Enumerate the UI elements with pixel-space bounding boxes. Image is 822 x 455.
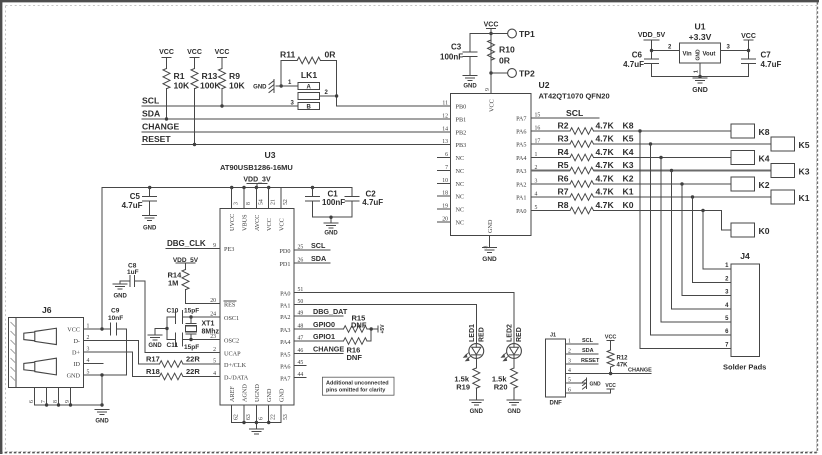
net label SCL at U2 PA7 bbox=[531, 108, 599, 118]
J6 shield pin 9 bbox=[65, 388, 71, 406]
svg-text:C7: C7 bbox=[761, 51, 772, 60]
svg-text:14: 14 bbox=[442, 127, 448, 133]
svg-text:GND: GND bbox=[67, 373, 81, 380]
U3 pin 3 UVCC bbox=[229, 188, 240, 232]
resistor R4 4.7K bbox=[531, 147, 614, 161]
wire OSC2 / U3 pin 23 bbox=[183, 334, 240, 345]
svg-text:12: 12 bbox=[442, 114, 448, 120]
svg-text:26: 26 bbox=[298, 258, 304, 264]
U3 pin 6 UGND bbox=[254, 384, 265, 423]
U2 pin 11 PB0 bbox=[442, 101, 466, 111]
key pad K2 bbox=[731, 177, 770, 191]
wire RES / U3 pin 20 bbox=[186, 298, 237, 309]
svg-text:PA7: PA7 bbox=[516, 116, 526, 123]
wire U1 ground rail bbox=[652, 63, 749, 78]
wire SCL bus left segment bbox=[142, 104, 298, 107]
net label RESET at J1 bbox=[566, 358, 600, 364]
svg-text:J4: J4 bbox=[740, 251, 750, 261]
wire J6 VCC bbox=[84, 327, 111, 330]
svg-text:+5V: +5V bbox=[380, 324, 386, 334]
wire J1 pin6 to VCC bbox=[566, 383, 617, 393]
svg-text:SCL: SCL bbox=[142, 96, 159, 106]
svg-text:LED2: LED2 bbox=[507, 324, 514, 342]
U2 pin 6 NC stub bbox=[438, 152, 465, 162]
svg-text:2: 2 bbox=[213, 347, 216, 353]
svg-text:CHANGE: CHANGE bbox=[628, 368, 652, 374]
ground below C1 C2 bbox=[324, 223, 338, 237]
svg-text:22R: 22R bbox=[186, 355, 200, 364]
svg-text:R10: R10 bbox=[499, 45, 515, 55]
svg-text:NC: NC bbox=[456, 155, 465, 162]
svg-text:DBG_CLK: DBG_CLK bbox=[167, 239, 206, 248]
svg-text:VDD_5V: VDD_5V bbox=[638, 32, 666, 39]
key pad K1 bbox=[771, 190, 810, 204]
svg-text:4.7K: 4.7K bbox=[596, 200, 615, 210]
svg-text:PA6: PA6 bbox=[280, 364, 290, 371]
U3 pin 5 D+CLK bbox=[213, 359, 246, 370]
svg-text:VBUS: VBUS bbox=[242, 214, 249, 231]
ground flag at LK1 bbox=[253, 80, 281, 93]
svg-text:K1: K1 bbox=[623, 187, 634, 197]
capacitor C7 4.7uF bbox=[742, 51, 782, 77]
USB plug symbol upper bbox=[24, 328, 57, 344]
svg-text:4.7K: 4.7K bbox=[596, 121, 615, 131]
resistor R9 10K bbox=[219, 69, 246, 107]
svg-text:PA2: PA2 bbox=[280, 314, 290, 321]
svg-text:GND: GND bbox=[482, 256, 497, 263]
svg-text:UCAP: UCAP bbox=[224, 351, 241, 358]
svg-text:9: 9 bbox=[213, 243, 216, 249]
svg-text:VCC: VCC bbox=[266, 218, 273, 231]
U3 pin 22 GND bbox=[266, 388, 277, 422]
resistor R3 4.7K bbox=[531, 134, 614, 148]
svg-text:53: 53 bbox=[283, 414, 289, 420]
svg-text:PD1: PD1 bbox=[279, 261, 290, 268]
svg-text:R4: R4 bbox=[558, 147, 569, 157]
svg-text:OSC2: OSC2 bbox=[224, 338, 239, 345]
svg-text:GND: GND bbox=[507, 409, 521, 415]
U3 pin 8 VBUS bbox=[242, 188, 253, 232]
svg-text:VCC: VCC bbox=[215, 49, 230, 56]
svg-text:R6: R6 bbox=[558, 174, 569, 184]
svg-text:VCC: VCC bbox=[605, 335, 617, 341]
svg-text:pins omitted for clarity: pins omitted for clarity bbox=[326, 388, 386, 394]
svg-text:VCC: VCC bbox=[187, 49, 202, 56]
svg-text:AT42QT1070 QFN20: AT42QT1070 QFN20 bbox=[539, 92, 610, 101]
svg-text:R17: R17 bbox=[146, 355, 160, 364]
net flag VDD_5V at R14 bbox=[173, 257, 199, 270]
wire U1 pin 2 input bbox=[652, 45, 680, 51]
svg-text:UGND: UGND bbox=[254, 384, 261, 402]
net label K3 bbox=[623, 160, 634, 170]
svg-text:D+: D+ bbox=[72, 350, 80, 357]
svg-text:UVCC: UVCC bbox=[229, 214, 236, 231]
svg-text:NC: NC bbox=[456, 207, 465, 214]
svg-text:20: 20 bbox=[442, 217, 448, 223]
net label SDA bbox=[142, 109, 160, 119]
svg-text:VCC: VCC bbox=[159, 49, 174, 56]
resistor R12 47K bbox=[607, 350, 628, 374]
svg-text:44: 44 bbox=[298, 372, 304, 378]
net label SDA at J1 bbox=[566, 348, 599, 354]
svg-text:48: 48 bbox=[298, 324, 304, 330]
U2 pin 5 PA0 bbox=[516, 205, 537, 215]
svg-text:4.7K: 4.7K bbox=[596, 147, 615, 157]
svg-text:K3: K3 bbox=[623, 160, 634, 170]
svg-text:PA3: PA3 bbox=[516, 168, 526, 175]
U3 pin 45 PA6 stub bbox=[280, 360, 306, 371]
svg-text:5: 5 bbox=[213, 359, 216, 365]
J6 shield pin 7 bbox=[41, 388, 47, 406]
svg-text:C5: C5 bbox=[130, 192, 141, 201]
net label RESET bbox=[142, 134, 171, 144]
resistor R8 4.7K bbox=[531, 200, 614, 214]
svg-text:3: 3 bbox=[234, 202, 240, 205]
J4 pin 1 bbox=[725, 263, 729, 269]
capacitor C3 100nF bbox=[440, 34, 491, 76]
wire CHANGE bus bbox=[142, 131, 451, 133]
U2 pin 14 PB2 bbox=[442, 127, 466, 137]
svg-text:R5: R5 bbox=[558, 160, 569, 170]
resistor R6 4.7K bbox=[531, 174, 614, 188]
svg-text:VCC: VCC bbox=[484, 22, 499, 29]
J4 pin 5 bbox=[725, 316, 729, 322]
svg-text:SCL: SCL bbox=[582, 338, 594, 344]
svg-text:PA3: PA3 bbox=[280, 327, 290, 334]
svg-text:46: 46 bbox=[298, 348, 304, 354]
svg-text:D-/DATA: D-/DATA bbox=[224, 375, 249, 382]
net label DBG_CLK / U3 pin 9 PE3 bbox=[166, 239, 234, 253]
svg-text:GPIO1: GPIO1 bbox=[313, 332, 335, 341]
svg-text:GND: GND bbox=[148, 343, 162, 349]
J1 pin 1 bbox=[568, 339, 571, 345]
resistor R19 1.5k bbox=[454, 358, 479, 399]
wire K4 row bbox=[594, 156, 732, 159]
svg-text:K0: K0 bbox=[759, 226, 770, 236]
wire U3 PA1 pin 50 to LED1 bbox=[280, 299, 476, 344]
svg-text:NC: NC bbox=[456, 220, 465, 227]
capacitor C6 4.7uF bbox=[623, 51, 658, 77]
U2 pin 13 PB3 bbox=[442, 139, 466, 149]
wire key net to J4 bbox=[640, 131, 731, 349]
resistor R11 0R bbox=[280, 50, 337, 64]
J1 pin 2 bbox=[568, 349, 571, 355]
svg-text:PA4: PA4 bbox=[516, 155, 526, 162]
svg-text:R3: R3 bbox=[558, 134, 569, 144]
resistor R5 4.7K bbox=[531, 160, 614, 174]
resistor R10 0R bbox=[488, 40, 515, 66]
svg-text:9: 9 bbox=[65, 400, 71, 403]
resistor R16 DNF bbox=[344, 338, 372, 362]
svg-text:7: 7 bbox=[445, 165, 448, 171]
svg-text:Vin: Vin bbox=[683, 52, 693, 58]
U2 pin 20 NC stub bbox=[438, 217, 465, 227]
svg-text:PA2: PA2 bbox=[516, 182, 526, 189]
U2 pin 10 NC stub bbox=[438, 178, 465, 188]
svg-text:PA0: PA0 bbox=[280, 291, 290, 298]
svg-text:PD0: PD0 bbox=[279, 248, 290, 255]
J1 pin 4 bbox=[568, 368, 571, 374]
wire C9 to ground net bbox=[126, 329, 128, 375]
svg-text:Solder Pads: Solder Pads bbox=[723, 363, 766, 372]
svg-text:NC: NC bbox=[456, 181, 465, 188]
ground at C8 bbox=[113, 284, 127, 300]
svg-text:R8: R8 bbox=[558, 200, 569, 210]
svg-text:52: 52 bbox=[283, 199, 289, 205]
svg-text:K2: K2 bbox=[623, 174, 634, 184]
power symbol VCC bbox=[159, 49, 174, 69]
connector J4 Solder Pads bbox=[723, 251, 766, 372]
svg-text:23: 23 bbox=[210, 334, 216, 340]
svg-text:D+/CLK: D+/CLK bbox=[224, 362, 247, 369]
svg-text:4.7uF: 4.7uF bbox=[761, 60, 782, 69]
svg-text:K4: K4 bbox=[623, 147, 634, 157]
svg-text:7: 7 bbox=[41, 400, 47, 403]
ground flag at J1 pin5 bbox=[566, 378, 602, 389]
svg-text:GND: GND bbox=[114, 294, 128, 300]
svg-text:22R: 22R bbox=[186, 367, 200, 376]
svg-text:SCL: SCL bbox=[311, 241, 326, 250]
wire J6 GND bbox=[84, 373, 127, 406]
net label SCL bbox=[142, 96, 159, 106]
key pad K4 bbox=[731, 151, 770, 165]
resistor R1 10K bbox=[163, 69, 190, 120]
resistor R18 22R bbox=[133, 367, 221, 380]
net label SCL at J1 bbox=[566, 338, 599, 344]
svg-text:0R: 0R bbox=[325, 50, 337, 60]
crystal XT1 8MHz bbox=[186, 317, 220, 340]
svg-text:DNF: DNF bbox=[347, 353, 363, 362]
svg-text:22: 22 bbox=[271, 414, 277, 420]
svg-text:TP1: TP1 bbox=[519, 29, 535, 39]
net label SCL / U3 pin 25 PD0 bbox=[279, 241, 330, 255]
net label GPIO1 / U3 pin 47 PA4 bbox=[280, 332, 343, 346]
svg-text:RED: RED bbox=[479, 327, 486, 342]
resistor R13 100K bbox=[191, 69, 221, 145]
svg-text:K1: K1 bbox=[799, 193, 810, 203]
U3 pin 4 D-DATA bbox=[213, 371, 249, 382]
svg-text:XT1: XT1 bbox=[202, 321, 215, 328]
capacitor C2 4.7uF bbox=[345, 188, 383, 218]
capacitor C8 1uF bbox=[120, 263, 145, 287]
U3 pin 54 AVCC bbox=[254, 188, 265, 232]
svg-text:R13: R13 bbox=[202, 71, 218, 81]
svg-text:47K: 47K bbox=[617, 363, 629, 369]
svg-text:GND: GND bbox=[692, 87, 708, 94]
wire key net to J4 bbox=[693, 197, 732, 282]
U3 pin 53 GND bbox=[279, 388, 290, 422]
svg-text:45: 45 bbox=[298, 360, 304, 366]
svg-text:100nF: 100nF bbox=[322, 198, 345, 207]
resistor R7 4.7K bbox=[531, 187, 614, 201]
power symbol VCC above U2 bbox=[484, 22, 499, 29]
wire R15 R16 junction to flag bbox=[370, 324, 387, 341]
svg-text:10: 10 bbox=[442, 178, 448, 184]
svg-text:K4: K4 bbox=[759, 154, 770, 164]
resistor R17 22R bbox=[139, 355, 221, 368]
U3 pin 44 PA7 stub bbox=[280, 372, 306, 383]
U3 pin 62 AREF bbox=[229, 386, 240, 423]
svg-text:63: 63 bbox=[246, 414, 252, 420]
svg-text:24: 24 bbox=[210, 312, 216, 318]
svg-text:GND: GND bbox=[324, 231, 338, 237]
svg-text:15pF: 15pF bbox=[184, 308, 199, 315]
net label K1 bbox=[623, 187, 634, 197]
J4 pin 2 bbox=[725, 276, 729, 282]
svg-text:GND: GND bbox=[279, 388, 286, 402]
capacitor C11 15pF bbox=[167, 333, 200, 351]
jumper LK1 bbox=[281, 70, 336, 110]
svg-text:10K: 10K bbox=[174, 81, 191, 91]
svg-text:ID: ID bbox=[73, 361, 80, 368]
note box bbox=[322, 377, 394, 395]
svg-text:RES: RES bbox=[224, 302, 236, 309]
LED LED1 RED bbox=[464, 324, 486, 361]
test point TP2 bbox=[491, 69, 535, 79]
svg-text:PA5: PA5 bbox=[280, 352, 290, 359]
svg-text:VCC: VCC bbox=[279, 218, 286, 231]
net flag VDD_3V bbox=[243, 177, 271, 188]
wire J6 D- to R17 bbox=[84, 341, 139, 365]
svg-text:11: 11 bbox=[442, 101, 448, 107]
wire C1 C2 ground bus bbox=[313, 216, 353, 223]
wire RESET bus bbox=[142, 143, 451, 146]
wire SDA bus bbox=[142, 117, 451, 120]
svg-text:+3.3V: +3.3V bbox=[689, 32, 712, 42]
svg-text:LED1: LED1 bbox=[469, 324, 476, 342]
svg-text:U2: U2 bbox=[539, 80, 550, 90]
capacitor C1 100nF bbox=[306, 188, 346, 218]
svg-text:Additional unconnected: Additional unconnected bbox=[326, 381, 389, 387]
wire OSC1 / U3 pin 24 bbox=[183, 312, 240, 323]
net label SDA / U3 pin 26 PD1 bbox=[279, 254, 330, 268]
svg-text:K8: K8 bbox=[759, 127, 770, 137]
wire K8 row bbox=[594, 129, 732, 132]
U2 pin 12 PB1 bbox=[442, 114, 466, 124]
wire K5 row bbox=[594, 142, 772, 145]
wire R11 left to LK1 pin1 bbox=[280, 60, 283, 87]
svg-text:R1: R1 bbox=[174, 71, 185, 81]
J1 pin 6 bbox=[568, 388, 571, 394]
svg-text:B: B bbox=[307, 104, 312, 110]
svg-text:PA4: PA4 bbox=[280, 339, 290, 346]
wire K3 row bbox=[594, 169, 772, 172]
resistor R2 4.7K bbox=[531, 121, 614, 135]
svg-text:PB0: PB0 bbox=[456, 104, 467, 111]
test point TP1 bbox=[491, 29, 535, 39]
svg-text:1uF: 1uF bbox=[127, 269, 139, 276]
svg-text:K2: K2 bbox=[759, 180, 770, 190]
wire UCAP / U3 pin 27 bbox=[145, 281, 241, 358]
svg-text:CHANGE: CHANGE bbox=[313, 345, 344, 354]
U2 pin 16 PA6 bbox=[516, 126, 540, 136]
svg-text:AVCC: AVCC bbox=[254, 215, 261, 231]
U3 pin 52 VCC bbox=[279, 188, 290, 232]
svg-text:PA0: PA0 bbox=[516, 208, 526, 215]
svg-text:PA5: PA5 bbox=[516, 142, 526, 149]
svg-text:62: 62 bbox=[234, 414, 240, 420]
net label K2 bbox=[623, 174, 634, 184]
svg-text:NC: NC bbox=[456, 168, 465, 175]
svg-text:PE3: PE3 bbox=[224, 246, 234, 253]
svg-text:49: 49 bbox=[298, 311, 304, 317]
svg-text:13: 13 bbox=[442, 139, 448, 145]
LED LED2 RED bbox=[501, 324, 523, 361]
svg-text:DBG_DAT: DBG_DAT bbox=[313, 307, 348, 316]
connector J6 USB bbox=[9, 305, 84, 388]
svg-text:NC: NC bbox=[456, 194, 465, 201]
U2 pin 2 PA3 bbox=[516, 165, 537, 175]
J4 pin 4 bbox=[725, 303, 729, 309]
power symbol VCC bbox=[215, 49, 230, 69]
U2 pin 1 PA4 bbox=[516, 152, 537, 162]
resistor R14 1M bbox=[168, 270, 190, 304]
J6 pin 3 D+ bbox=[72, 347, 89, 357]
svg-text:4.7uF: 4.7uF bbox=[623, 60, 644, 69]
svg-text:20: 20 bbox=[210, 298, 216, 304]
svg-text:SDA: SDA bbox=[142, 109, 160, 119]
U3 pin 21 VCC bbox=[266, 188, 277, 232]
svg-text:U3: U3 bbox=[265, 150, 276, 160]
svg-text:GND: GND bbox=[696, 49, 702, 61]
svg-text:8: 8 bbox=[246, 202, 252, 205]
svg-text:R7: R7 bbox=[558, 187, 569, 197]
svg-text:AGND: AGND bbox=[242, 384, 249, 402]
svg-text:4.7uF: 4.7uF bbox=[362, 198, 383, 207]
U2 pin 3 PA2 bbox=[516, 179, 537, 189]
J1 pin 5 bbox=[568, 378, 571, 384]
wire key net to J4 bbox=[703, 211, 731, 270]
svg-text:18: 18 bbox=[442, 191, 448, 197]
svg-text:VDD_3V: VDD_3V bbox=[243, 177, 271, 184]
wire U1 pin 3 output bbox=[721, 45, 749, 51]
J6 pin 5 GND bbox=[67, 370, 90, 380]
key pad K8 bbox=[731, 124, 770, 138]
ground below C3 bbox=[463, 76, 477, 90]
svg-text:10nF: 10nF bbox=[108, 315, 123, 322]
ground below C5 bbox=[143, 216, 157, 232]
wire J6 D+ to R18 bbox=[84, 352, 133, 377]
svg-text:DNF: DNF bbox=[550, 401, 563, 407]
svg-text:100nF: 100nF bbox=[440, 53, 463, 62]
svg-text:4.7K: 4.7K bbox=[596, 174, 615, 184]
wire VDD_3V rail bbox=[102, 186, 352, 189]
wire key net to J4 bbox=[672, 171, 732, 309]
svg-text:19: 19 bbox=[442, 204, 448, 210]
svg-text:PA1: PA1 bbox=[280, 303, 290, 310]
svg-text:PB3: PB3 bbox=[456, 142, 467, 149]
ground below R19 bbox=[469, 400, 483, 415]
wire J6 shield bus bbox=[35, 403, 102, 406]
svg-text:15pF: 15pF bbox=[184, 344, 199, 351]
capacitor C9 10nF bbox=[108, 308, 127, 336]
wire K2 row bbox=[594, 182, 732, 185]
svg-text:GND: GND bbox=[463, 84, 477, 90]
wire LK1 pin2 / R11 right to SCL bbox=[335, 60, 338, 106]
J6 shield pin 8 bbox=[53, 388, 59, 406]
J4 pin 3 bbox=[725, 290, 729, 296]
svg-text:SCL: SCL bbox=[566, 108, 583, 118]
svg-text:D-: D- bbox=[73, 338, 80, 345]
svg-text:GND: GND bbox=[95, 419, 109, 425]
capacitor C10 15pF bbox=[167, 308, 200, 324]
svg-text:J1: J1 bbox=[550, 333, 556, 339]
J4 pin 7 bbox=[725, 343, 729, 349]
svg-text:PA6: PA6 bbox=[516, 129, 526, 136]
wire K1 row bbox=[594, 195, 772, 198]
IC U2 AT42QT1070 QFN20 bbox=[451, 80, 610, 236]
svg-text:GPIO0: GPIO0 bbox=[313, 320, 335, 329]
